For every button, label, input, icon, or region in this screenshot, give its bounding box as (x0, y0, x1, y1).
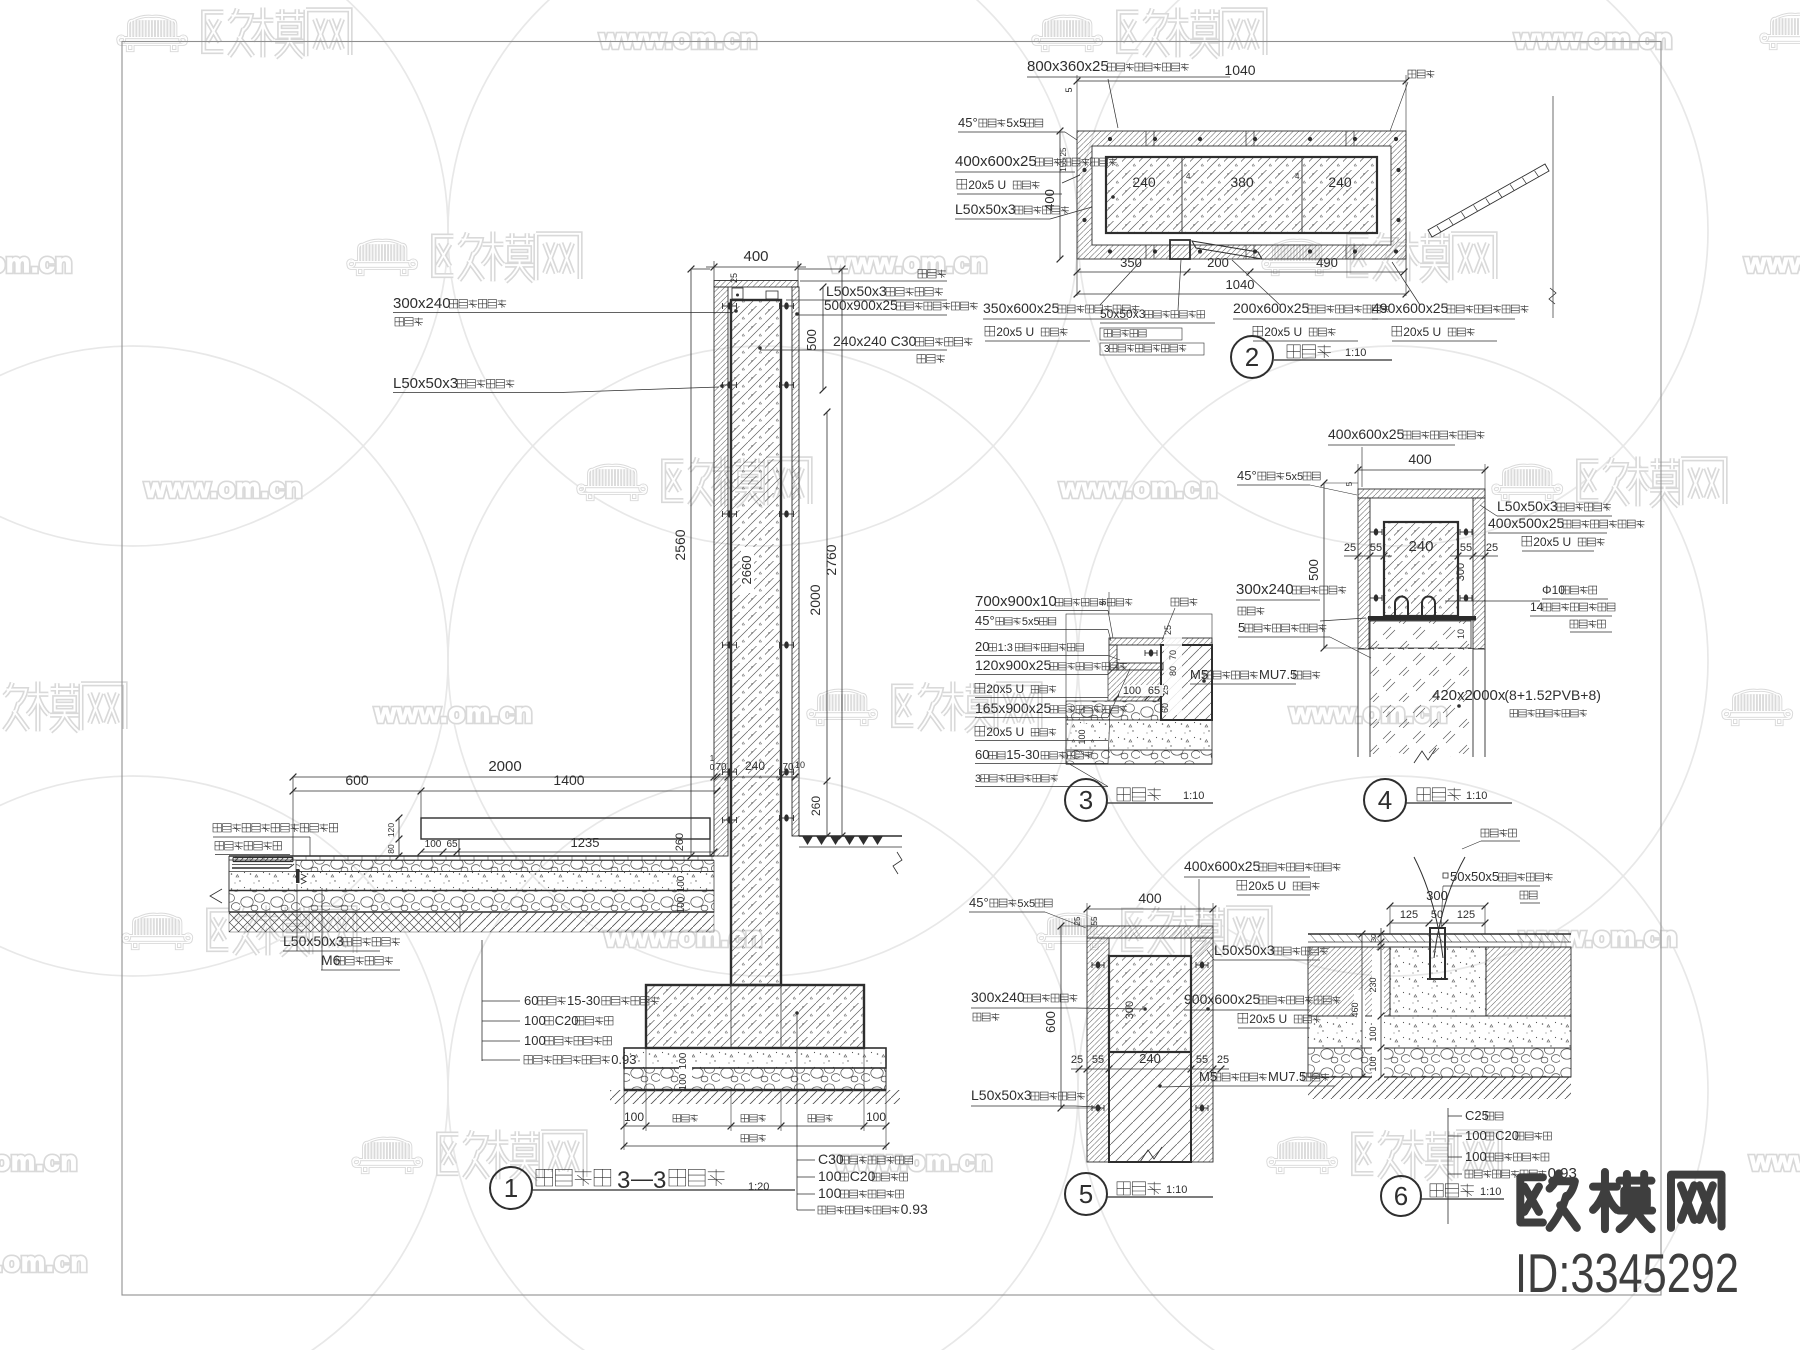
svg-text:100: 100 (818, 1168, 842, 1184)
svg-text:1:10: 1:10 (1466, 790, 1487, 802)
svg-text:100: 100 (818, 1185, 842, 1201)
section1 title (490, 1167, 532, 1209)
detail6 concrete band (1308, 1016, 1571, 1048)
detail5 right band (1191, 938, 1213, 1162)
leader stack bench layers (481, 940, 483, 1061)
svg-text:15-30: 15-30 (1006, 747, 1039, 762)
svg-text:100: 100 (676, 875, 687, 892)
svg-text:125: 125 (1457, 909, 1475, 921)
drain channel (232, 864, 292, 866)
detail3 anchor (1145, 652, 1157, 654)
svg-text:65: 65 (1148, 685, 1160, 697)
svg-text:1: 1 (710, 754, 715, 763)
svg-text:4: 4 (1378, 785, 1392, 815)
detail3 brick wall (1161, 645, 1212, 720)
ground line right of wall (799, 835, 902, 837)
detail3 title (1065, 779, 1107, 821)
svg-text:200x600x25: 200x600x25 (1233, 300, 1310, 316)
svg-text:700x900x10: 700x900x10 (975, 593, 1057, 610)
svg-text:45°: 45° (958, 115, 978, 130)
svg-text:5: 5 (1079, 1179, 1093, 1209)
svg-text:100: 100 (524, 1013, 546, 1028)
detail3 top stone band (1109, 638, 1212, 645)
big omcn logo (1520, 1173, 1577, 1228)
svg-text:15-30: 15-30 (567, 993, 600, 1008)
svg-text:MU7.5: MU7.5 (1259, 667, 1297, 682)
svg-text:900x600x25: 900x600x25 (1184, 991, 1261, 1007)
detail5 title (1065, 1173, 1107, 1215)
svg-text:800x360x25: 800x360x25 (1027, 58, 1109, 75)
detail2 bottom dims (1076, 259, 1078, 296)
svg-text:1235: 1235 (571, 835, 600, 850)
detail4 right band (1473, 498, 1485, 649)
svg-text:240x240 C30: 240x240 C30 (833, 333, 917, 349)
detail4 anchors (1370, 531, 1382, 533)
svg-text:240: 240 (1328, 174, 1352, 190)
svg-text:2760: 2760 (823, 544, 839, 575)
svg-text:100: 100 (678, 1073, 689, 1090)
svg-text:5: 5 (1238, 620, 1245, 635)
svg-text:380: 380 (1230, 174, 1254, 190)
detail3 cobble + concrete + cobble (1066, 701, 1161, 720)
svg-text:20x5 U: 20x5 U (1264, 325, 1302, 339)
svg-text:45°: 45° (969, 895, 989, 910)
detail5 top dim 400 (1086, 903, 1088, 926)
svg-text:L50x50x3: L50x50x3 (1497, 498, 1558, 514)
detail4 dim 500 (1323, 483, 1325, 648)
detail2 outer stone band (1077, 131, 1406, 259)
leader stack footing layers (795, 1011, 799, 1015)
bench plinth (458, 839, 460, 856)
detail3 mortar zone (1108, 670, 1161, 701)
svg-text:10: 10 (1456, 629, 1466, 639)
detail6 block row (1308, 947, 1390, 1016)
border frame (122, 42, 1661, 1296)
detail4 title (1364, 779, 1406, 821)
svg-text:230: 230 (1368, 977, 1378, 992)
svg-text:240: 240 (1408, 538, 1433, 555)
svg-text:70: 70 (782, 762, 794, 773)
svg-text:1400: 1400 (553, 772, 584, 788)
dim 2560 left (690, 269, 692, 856)
svg-text:50x50x5: 50x50x5 (1450, 869, 1499, 884)
detail4 glass panel (1369, 621, 1471, 648)
svg-text:100: 100 (678, 1052, 689, 1069)
section1 left cladding (714, 287, 728, 856)
bench slab (421, 818, 710, 839)
svg-text:5x5: 5x5 (1022, 616, 1040, 628)
svg-text:2000: 2000 (807, 584, 823, 615)
svg-text:25: 25 (1344, 542, 1356, 554)
svg-text:1:3: 1:3 (998, 642, 1013, 654)
svg-text:25: 25 (729, 273, 739, 283)
svg-text:5: 5 (1345, 481, 1354, 486)
svg-text:C25: C25 (1465, 1108, 1489, 1123)
svg-text:100: 100 (1368, 1026, 1378, 1041)
svg-text:300x240: 300x240 (971, 989, 1025, 1005)
detail2 top dim 1040 (1076, 75, 1078, 131)
svg-text:25: 25 (1486, 542, 1498, 554)
svg-text:460: 460 (1350, 1002, 1360, 1017)
section1 wall cap stone (714, 281, 798, 288)
svg-text:490x600x25: 490x600x25 (1372, 300, 1449, 316)
svg-text:L50x50x3: L50x50x3 (826, 283, 887, 299)
svg-text:ID:3345292: ID:3345292 (1515, 1242, 1739, 1304)
svg-text:70: 70 (1168, 650, 1178, 660)
right dims 2000 2760 260 (826, 412, 828, 836)
detail4 top dim 400 (1357, 464, 1359, 489)
svg-text:600: 600 (345, 772, 369, 788)
svg-text:125: 125 (1400, 909, 1418, 921)
svg-text:1:20: 1:20 (748, 1181, 769, 1193)
svg-text:14: 14 (1530, 600, 1544, 614)
svg-text:C20: C20 (1495, 1128, 1519, 1143)
svg-text:55: 55 (1092, 1054, 1104, 1066)
detail2 left dim 400 (1059, 131, 1061, 259)
svg-text:350x600x25: 350x600x25 (983, 300, 1060, 316)
svg-text:400: 400 (1138, 890, 1162, 906)
svg-text:M6: M6 (321, 952, 341, 968)
svg-text:L50x50x3: L50x50x3 (283, 933, 344, 949)
svg-text:100: 100 (676, 896, 687, 913)
dim 2660 in core (741, 547, 754, 593)
svg-text:400: 400 (743, 248, 768, 265)
svg-text:400: 400 (1042, 189, 1057, 211)
svg-text:60: 60 (975, 747, 989, 762)
svg-text:55: 55 (1196, 1054, 1208, 1066)
svg-text:2: 2 (1245, 342, 1259, 372)
svg-text:5x5: 5x5 (1017, 898, 1035, 910)
svg-text:300: 300 (1426, 888, 1448, 903)
svg-text:165x900x25: 165x900x25 (975, 700, 1052, 716)
detail5 anchors (1092, 964, 1104, 966)
detail5 mid dims (1071, 1068, 1229, 1070)
detail6 cobble band (1308, 1048, 1571, 1077)
right labels top (918, 270, 946, 278)
svg-text:30: 30 (1369, 934, 1378, 942)
svg-text:5x5: 5x5 (1006, 116, 1026, 130)
svg-text:300: 300 (1124, 1001, 1136, 1019)
detail4 left 300x240 leader (1320, 618, 1366, 621)
svg-text:80: 80 (1168, 666, 1178, 676)
svg-text:20x5 U: 20x5 U (1533, 535, 1571, 549)
svg-text:C20: C20 (555, 1013, 579, 1028)
svg-text:500: 500 (1306, 559, 1321, 581)
svg-text:45°: 45° (975, 613, 995, 628)
svg-text:80: 80 (386, 844, 396, 854)
svg-text:65: 65 (446, 839, 458, 850)
dims 100 65 1235 (421, 851, 714, 853)
svg-text:M5: M5 (1199, 1069, 1217, 1084)
svg-text:—: — (631, 1166, 653, 1191)
svg-text:1:10: 1:10 (1166, 1184, 1187, 1196)
svg-text:260: 260 (674, 833, 686, 851)
svg-text:60: 60 (524, 993, 538, 1008)
svg-text:2560: 2560 (672, 529, 688, 560)
svg-text:400x600x25: 400x600x25 (1328, 426, 1405, 442)
wall top angle plates (732, 288, 743, 299)
svg-text:100: 100 (1077, 729, 1087, 744)
detail4 hooks (1395, 597, 1408, 616)
detail4 top band (1358, 489, 1485, 498)
svg-text:20x5 U: 20x5 U (1248, 879, 1286, 893)
svg-text:100: 100 (425, 839, 442, 850)
svg-text:0.93: 0.93 (901, 1201, 928, 1217)
section1 concrete core column (731, 300, 781, 985)
svg-text:55: 55 (1090, 916, 1099, 925)
svg-text:10: 10 (795, 760, 805, 770)
drain grate (233, 857, 293, 859)
drain labels (213, 824, 338, 832)
svg-text:200: 200 (1207, 255, 1229, 270)
svg-text:1:10: 1:10 (1345, 347, 1366, 359)
svg-text:400x600x25: 400x600x25 (955, 153, 1037, 170)
svg-text:2000: 2000 (488, 758, 521, 775)
detail5 core lower (1109, 1052, 1191, 1162)
svg-text:4: 4 (1186, 172, 1191, 181)
detail6 post (1430, 928, 1445, 979)
detail2 title (1231, 336, 1273, 378)
svg-text:420x2000x: 420x2000x (1432, 687, 1506, 704)
detail4 lower wall glass (1357, 649, 1359, 757)
svg-text:120x900x25: 120x900x25 (975, 657, 1052, 673)
svg-text:260: 260 (809, 796, 823, 816)
svg-text:240: 240 (1139, 1051, 1161, 1066)
svg-text:M5: M5 (1190, 667, 1208, 682)
svg-text:25: 25 (1217, 1054, 1229, 1066)
svg-text:100: 100 (1368, 1056, 1378, 1071)
detail5 dim 600 (1060, 926, 1062, 1108)
svg-text:6: 6 (1394, 1181, 1408, 1211)
detail2 broken stone diagonal (1428, 164, 1549, 237)
svg-text:20x5 U: 20x5 U (1249, 1012, 1287, 1026)
svg-text:400: 400 (1408, 451, 1432, 467)
detail3 frame box (1066, 614, 1212, 764)
svg-text:1: 1 (504, 1173, 518, 1203)
svg-text:100: 100 (1465, 1128, 1487, 1143)
detail5 core upper (1109, 956, 1191, 1052)
detail2 core (1106, 157, 1377, 233)
svg-text:1040: 1040 (1224, 62, 1255, 78)
svg-text:100: 100 (1123, 685, 1141, 697)
detail4 core (1384, 522, 1458, 616)
soil under footing (610, 1090, 900, 1104)
svg-text:50: 50 (1431, 909, 1443, 921)
svg-text:50x50x3: 50x50x3 (1100, 307, 1146, 321)
svg-text:1:10: 1:10 (1480, 1186, 1501, 1198)
svg-text:4: 4 (1295, 172, 1300, 181)
footing pad (624, 1048, 886, 1068)
detail5 top band (1087, 926, 1213, 938)
svg-text:L50x50x3: L50x50x3 (1214, 942, 1275, 958)
dim 500 right (822, 287, 824, 390)
detail6 soil hatch (1308, 1077, 1571, 1099)
svg-text:300: 300 (1455, 563, 1467, 581)
svg-text:55: 55 (1460, 542, 1472, 554)
svg-text:20x5 U: 20x5 U (968, 178, 1006, 192)
svg-text:240: 240 (1132, 174, 1156, 190)
svg-text:20x5 U: 20x5 U (996, 325, 1034, 339)
svg-text:MU7.5: MU7.5 (1268, 1069, 1306, 1084)
svg-text:600: 600 (1043, 1011, 1058, 1033)
svg-text:20x5 U: 20x5 U (1403, 325, 1441, 339)
footing gravel (624, 1068, 886, 1090)
svg-text:45°: 45° (1237, 468, 1257, 483)
detail3 C channel stone (1109, 645, 1117, 670)
svg-text:2660: 2660 (739, 556, 754, 585)
svg-text:20x5 U: 20x5 U (986, 682, 1024, 696)
footing upper block (646, 985, 864, 1048)
wall width dims 70 240 70 10 (714, 776, 798, 778)
detail5 left band (1087, 938, 1109, 1162)
svg-text:120: 120 (386, 823, 396, 837)
svg-text:20x5 U: 20x5 U (986, 725, 1024, 739)
detail6 left dims (1372, 950, 1384, 1080)
detail4 dims 25 55 (1344, 555, 1392, 557)
detail2 joints and dots (1145, 131, 1147, 146)
detail6 labels top (1481, 829, 1516, 837)
svg-text:500: 500 (804, 329, 819, 351)
svg-text:240: 240 (745, 759, 765, 773)
svg-text:3: 3 (975, 773, 981, 785)
svg-text:1:10: 1:10 (1183, 790, 1204, 802)
footing vertical dims 100 100 (679, 1050, 692, 1088)
detail4 embed plate (1368, 616, 1476, 621)
svg-text:20: 20 (975, 639, 989, 654)
watermark logos (118, 7, 350, 57)
svg-text:L50x50x3: L50x50x3 (393, 375, 458, 392)
svg-text:5x5: 5x5 (1285, 471, 1303, 483)
dims 120 80 (398, 818, 400, 856)
dims 2000 600 1400 (293, 776, 717, 778)
detail3 hanger label (1171, 598, 1197, 606)
svg-text:500x900x25: 500x900x25 (824, 298, 898, 313)
detail4 left band (1358, 498, 1370, 649)
svg-text:400x600x25: 400x600x25 (1184, 858, 1261, 874)
detail2 small square + diagonal sliver (1170, 240, 1190, 259)
svg-text:350: 350 (1120, 255, 1142, 270)
svg-text:100: 100 (1465, 1149, 1487, 1164)
detail6 leader stack (1447, 1108, 1449, 1224)
svg-text:C30: C30 (818, 1151, 844, 1167)
svg-text:100: 100 (866, 1110, 886, 1124)
svg-text:C20: C20 (850, 1168, 876, 1184)
svg-text:25: 25 (1073, 916, 1082, 925)
svg-text:100: 100 (624, 1110, 644, 1124)
svg-text:300x240: 300x240 (393, 295, 451, 312)
svg-text:25: 25 (1071, 1054, 1083, 1066)
core top dim 400 (713, 261, 715, 280)
detail6 title (1381, 1176, 1421, 1216)
svg-text:0: 0 (710, 763, 715, 772)
svg-text:300x240: 300x240 (1236, 581, 1294, 598)
svg-text:60: 60 (1160, 703, 1170, 713)
svg-text:490: 490 (1316, 255, 1338, 270)
svg-text:100: 100 (524, 1033, 546, 1048)
detail6 pavement top (1308, 933, 1571, 935)
svg-text:L50x50x3: L50x50x3 (971, 1087, 1032, 1103)
wall anchors (723, 305, 737, 307)
svg-text:55: 55 (1370, 542, 1382, 554)
footing bottom dims (623, 1090, 625, 1150)
section1 right cladding (792, 287, 799, 836)
svg-text:70: 70 (715, 762, 727, 773)
svg-text:3: 3 (1079, 785, 1093, 815)
svg-text:400x500x25: 400x500x25 (1488, 515, 1565, 531)
svg-text:(8+1.52PVB+8): (8+1.52PVB+8) (1504, 687, 1601, 703)
svg-text:5: 5 (1064, 87, 1074, 92)
svg-text:L50x50x3: L50x50x3 (955, 201, 1016, 217)
svg-text:25: 25 (1059, 147, 1068, 156)
svg-text:1040: 1040 (1226, 277, 1255, 292)
detail6 sculpture V (1414, 857, 1465, 958)
pavement layers (229, 855, 714, 857)
